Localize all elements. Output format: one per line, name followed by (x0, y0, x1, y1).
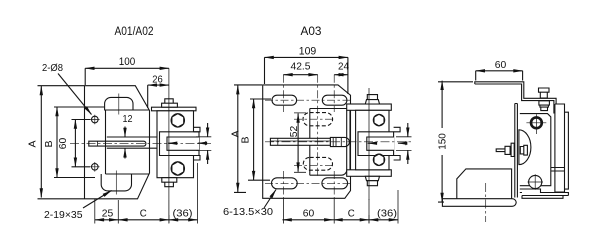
svg-text:C: C (348, 208, 355, 220)
svg-text:100: 100 (119, 56, 136, 68)
dimension 24 (334, 61, 349, 75)
svg-text:150: 150 (437, 133, 449, 150)
mounting plate edge-on (right view) (515, 104, 518, 198)
outer flange (right view) (565, 112, 569, 189)
bottom slot 19x35 (left view) (101, 174, 131, 191)
svg-text:A01/A02: A01/A02 (115, 26, 154, 38)
fork tabs (left view) (194, 127, 201, 160)
mechanism left bracket column (middle view) (347, 110, 350, 170)
base plate (right view) (442, 199, 516, 207)
svg-text:26: 26 (152, 74, 163, 86)
slot oval bottom-left (272, 178, 298, 189)
bottom slot centerline (115, 171, 117, 195)
svg-text:(36): (36) (173, 208, 193, 220)
dimension B (middle view) (240, 99, 272, 180)
vertical centerline of mechanism (left view) (168, 68, 170, 223)
svg-text:60: 60 (57, 138, 69, 150)
svg-text:25: 25 (102, 208, 114, 220)
fork clevis (middle view) (358, 132, 394, 156)
svg-text:B: B (240, 136, 252, 143)
slot oval top-left (272, 95, 297, 105)
lower circle boss (right view) (529, 175, 542, 188)
hole 2-Ø8 upper (92, 116, 99, 123)
bottom dimensions 60 / C / (36) (middle view) (283, 190, 399, 224)
hole 2-Ø8 lower (92, 164, 99, 171)
connector bracket (right view) (551, 168, 565, 172)
svg-text:B: B (43, 140, 55, 147)
device body (right view) (520, 114, 551, 186)
vertical centerline of mechanism (middle view) (368, 88, 370, 223)
dimension 100 (85, 56, 169, 85)
hex bolt lower (left view) (171, 162, 184, 175)
mounting plate outline (left view) (85, 86, 150, 199)
label 2-Ø8 with leader (42, 62, 92, 115)
top bolt stack (left view mech) (162, 99, 178, 107)
hex bolt upper (middle view) (373, 114, 384, 126)
dimension 42.5 (283, 61, 317, 75)
svg-text:109: 109 (299, 46, 317, 58)
svg-text:(36): (36) (377, 208, 397, 220)
actuating rod (middle view) (270, 138, 330, 145)
mechanism cap plate (left view) (152, 107, 197, 111)
bottom-left box (right view) (457, 169, 512, 199)
dimension 52 (288, 113, 306, 172)
svg-text:A: A (27, 140, 39, 147)
bottom bolt stack (middle view mech) (365, 176, 379, 180)
top slot centerline (118, 94, 120, 115)
dimension 150 (right view) (437, 81, 474, 202)
fork tabs (middle view) (394, 127, 401, 160)
small fork-gap dimension (middle view) (368, 123, 412, 164)
centerlines through ovals (middle view) (283, 75, 334, 199)
slot oval top-right (322, 95, 347, 105)
dimension 109 (265, 46, 348, 95)
hex bolt upper (left view) (171, 114, 184, 127)
small fork-gap dimension (left view) (168, 123, 211, 164)
body slot opening lines (12 notch) (107, 137, 157, 148)
dimension 60 (right view) (476, 59, 523, 81)
mechanism block (middle view) (356, 110, 389, 170)
dimension 60 (left view) (57, 120, 90, 167)
dimension 26 (148, 74, 169, 109)
slot oval bottom-right (322, 178, 348, 189)
mechanism block (left view) (157, 111, 194, 178)
horizontal centerline through rod (middle view) (265, 141, 411, 143)
rod threaded end (330, 137, 349, 146)
bottom dimensions 25 / C / (36) (left view) (95, 163, 198, 224)
bottom foot flange (right view) (520, 189, 569, 198)
base centerline (right view) (485, 183, 487, 222)
hidden slot oval middle-bottom (dashed) (303, 157, 332, 170)
svg-text:24: 24 (338, 61, 349, 73)
upper circle boss (right view) (531, 117, 542, 128)
bottom bolt stack (left view mech) (162, 178, 177, 187)
horizontal centerline through slot and fork (70, 143, 211, 145)
label 2-19x35 with leader (44, 191, 112, 222)
adjustment screw pointing left (right view) (496, 143, 527, 156)
device body rectangle (left view) (106, 110, 150, 174)
device body lines (middle view) (310, 109, 347, 176)
svg-text:6-13.5×30: 6-13.5×30 (223, 206, 273, 218)
Z-bracket top (right view) (475, 82, 556, 104)
top bolt stack on bracket shelf (right view) (539, 88, 550, 98)
svg-text:60: 60 (303, 208, 315, 220)
top bolt stack (middle view mech) (367, 95, 377, 100)
mounting plate outline (middle view) (263, 85, 351, 198)
side arc bulge (right view) (519, 130, 531, 165)
center slot in plate (89, 141, 146, 146)
svg-text:12: 12 (123, 113, 133, 125)
top slot 19x35 (left view) (105, 97, 133, 110)
svg-text:C: C (140, 208, 147, 220)
dimension B (left view) (43, 107, 104, 178)
fork clevis (left view) (160, 132, 200, 156)
back plate (right view) (555, 104, 565, 192)
svg-text:42.5: 42.5 (291, 61, 311, 73)
svg-text:2-19×35: 2-19×35 (44, 209, 83, 221)
hidden slot oval middle-top (dashed) (303, 113, 333, 126)
dimension A (left view) (27, 86, 85, 199)
svg-text:A: A (230, 130, 242, 137)
hex bolt lower (middle view) (373, 154, 384, 166)
svg-text:2-Ø8: 2-Ø8 (42, 62, 63, 74)
dimension A (middle view) (230, 85, 263, 192)
dimension 12 (123, 113, 133, 159)
label 6-13.5x30 with leader (223, 190, 276, 219)
svg-text:A03: A03 (301, 26, 322, 38)
svg-text:60: 60 (495, 59, 507, 71)
mechanism cap plate (middle view) (347, 104, 392, 110)
mechanism bottom plate (middle view) (347, 170, 392, 177)
